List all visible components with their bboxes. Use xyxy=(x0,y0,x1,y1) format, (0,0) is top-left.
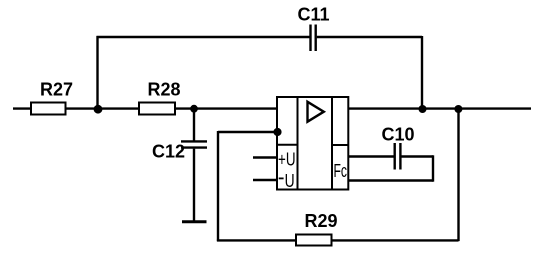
node D (C11 drop junction on output line) xyxy=(419,105,427,113)
node B (junction after R28, C12 tap) xyxy=(190,105,198,113)
svg-text:Fc: Fc xyxy=(334,161,348,181)
wire: Fc capacitor loop top branch xyxy=(348,155,393,157)
node A (junction after R27) xyxy=(94,105,103,114)
wire: top feedback line right of C11 xyxy=(317,36,422,38)
svg-text:C12: C12 xyxy=(152,142,185,162)
wire: bottom feedback line to R29 xyxy=(217,239,296,241)
wire: right vertical drop from C11 feedback xyxy=(421,36,423,109)
wire: feedback from inverting input, left then down xyxy=(218,131,278,241)
capacitor C10 xyxy=(395,143,401,170)
node C (inverting input junction on U1) xyxy=(273,128,281,136)
node E (R29 feedback junction on output line) xyxy=(454,105,462,113)
wire: right vertical from output down to R29 xyxy=(457,109,459,242)
wire: left vertical riser to C11 feedback xyxy=(96,36,98,109)
wire: +U pin stub xyxy=(253,156,277,158)
capacitor C12 xyxy=(181,141,207,147)
pin -U label xyxy=(279,171,295,191)
wire: C12 lower lead xyxy=(193,149,195,221)
wire: -U pin stub xyxy=(253,179,277,181)
svg-text:C11: C11 xyxy=(297,5,329,25)
svg-text:R28: R28 xyxy=(147,80,180,100)
svg-text:+U: +U xyxy=(278,149,296,169)
resistor R29 xyxy=(296,235,332,246)
svg-text:U: U xyxy=(285,171,295,191)
wire: Fc loop right segment and return to Fc pin xyxy=(348,155,433,181)
wire: top feedback line left of C11 xyxy=(97,36,310,38)
svg-text:R29: R29 xyxy=(304,211,337,231)
ground (terminal bar at bottom of C12) xyxy=(182,220,207,223)
wire: main horizontal signal line xyxy=(13,107,531,109)
op-amp triangle symbol xyxy=(308,102,324,122)
svg-text:C10: C10 xyxy=(381,124,414,144)
capacitor C11 xyxy=(311,25,316,52)
resistor R28 xyxy=(139,103,175,115)
wire: from node B down to C12 xyxy=(193,109,195,141)
op-amp U1 (filter IC block) xyxy=(277,97,348,190)
wire: from R29 right to output node xyxy=(332,239,459,241)
svg-text:R27: R27 xyxy=(40,80,73,100)
resistor R27 xyxy=(31,103,66,115)
